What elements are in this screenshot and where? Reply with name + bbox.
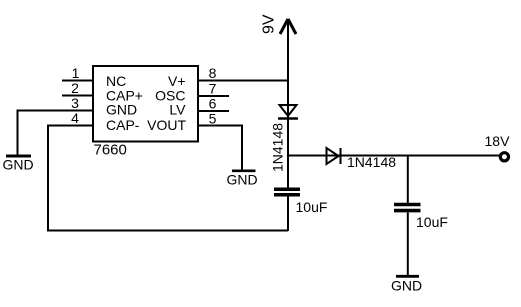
wire pin7 stub [198, 95, 229, 97]
svg-text:VOUT: VOUT [147, 117, 186, 133]
svg-text:8: 8 [209, 65, 217, 81]
capacitor C2 top plate [394, 203, 421, 207]
svg-text:GND: GND [106, 102, 137, 118]
svg-text:GND: GND [227, 172, 258, 188]
ground GND1 bar [6, 155, 31, 158]
power 9V arrow [280, 19, 296, 34]
diode D1 1N4148 triangle (pointing down) [280, 105, 297, 116]
wire pin8 to 9V rail [198, 80, 288, 82]
wire C2 bottom to ground [407, 213, 409, 277]
wire 9V rail down through D1 to C1 top [287, 19, 289, 188]
svg-text:1: 1 [72, 65, 80, 81]
svg-text:4: 4 [71, 110, 79, 126]
diode D2 cathode bar [340, 148, 342, 164]
svg-text:5: 5 [209, 110, 217, 126]
wire C1 bottom to rail [287, 197, 289, 232]
wire pin2 stub [62, 95, 93, 97]
svg-text:10uF: 10uF [296, 199, 328, 215]
svg-text:GND: GND [3, 157, 34, 173]
svg-text:CAP-: CAP- [106, 117, 140, 133]
node 18V output terminal circle [500, 153, 508, 161]
wire junction node to C2 [407, 156, 409, 204]
svg-text:10uF: 10uF [416, 214, 448, 230]
capacitor C1 top plate [274, 187, 300, 191]
svg-text:1N4148: 1N4148 [270, 123, 286, 172]
svg-text:7: 7 [209, 80, 217, 96]
ground GND2 bar [232, 170, 256, 173]
diode D1 cathode bar [278, 117, 298, 120]
wire pin3 to left ground [18, 111, 94, 157]
svg-text:1N4148: 1N4148 [347, 154, 396, 170]
svg-text:18V: 18V [485, 133, 511, 149]
diode D2 1N4148 triangle (pointing right) [327, 148, 339, 164]
capacitor C2 bottom plate [394, 209, 421, 213]
wire pin5 to middle ground [198, 126, 242, 172]
op-amp U1 7660 IC body [93, 66, 198, 142]
svg-text:7660: 7660 [94, 142, 127, 159]
svg-text:6: 6 [209, 95, 217, 111]
wire pin4 down and bottom rail to C1 [48, 126, 288, 231]
svg-text:9V: 9V [261, 14, 278, 34]
svg-text:LV: LV [169, 102, 186, 118]
svg-text:GND: GND [391, 278, 422, 294]
wire pin1 stub [62, 80, 93, 82]
svg-text:3: 3 [71, 95, 79, 111]
svg-text:2: 2 [71, 80, 79, 96]
wire output node across to 18V terminal [288, 155, 500, 157]
wire pin6 stub [198, 110, 229, 112]
capacitor C1 bottom plate [274, 193, 300, 197]
ground GND3 bar [396, 275, 419, 278]
